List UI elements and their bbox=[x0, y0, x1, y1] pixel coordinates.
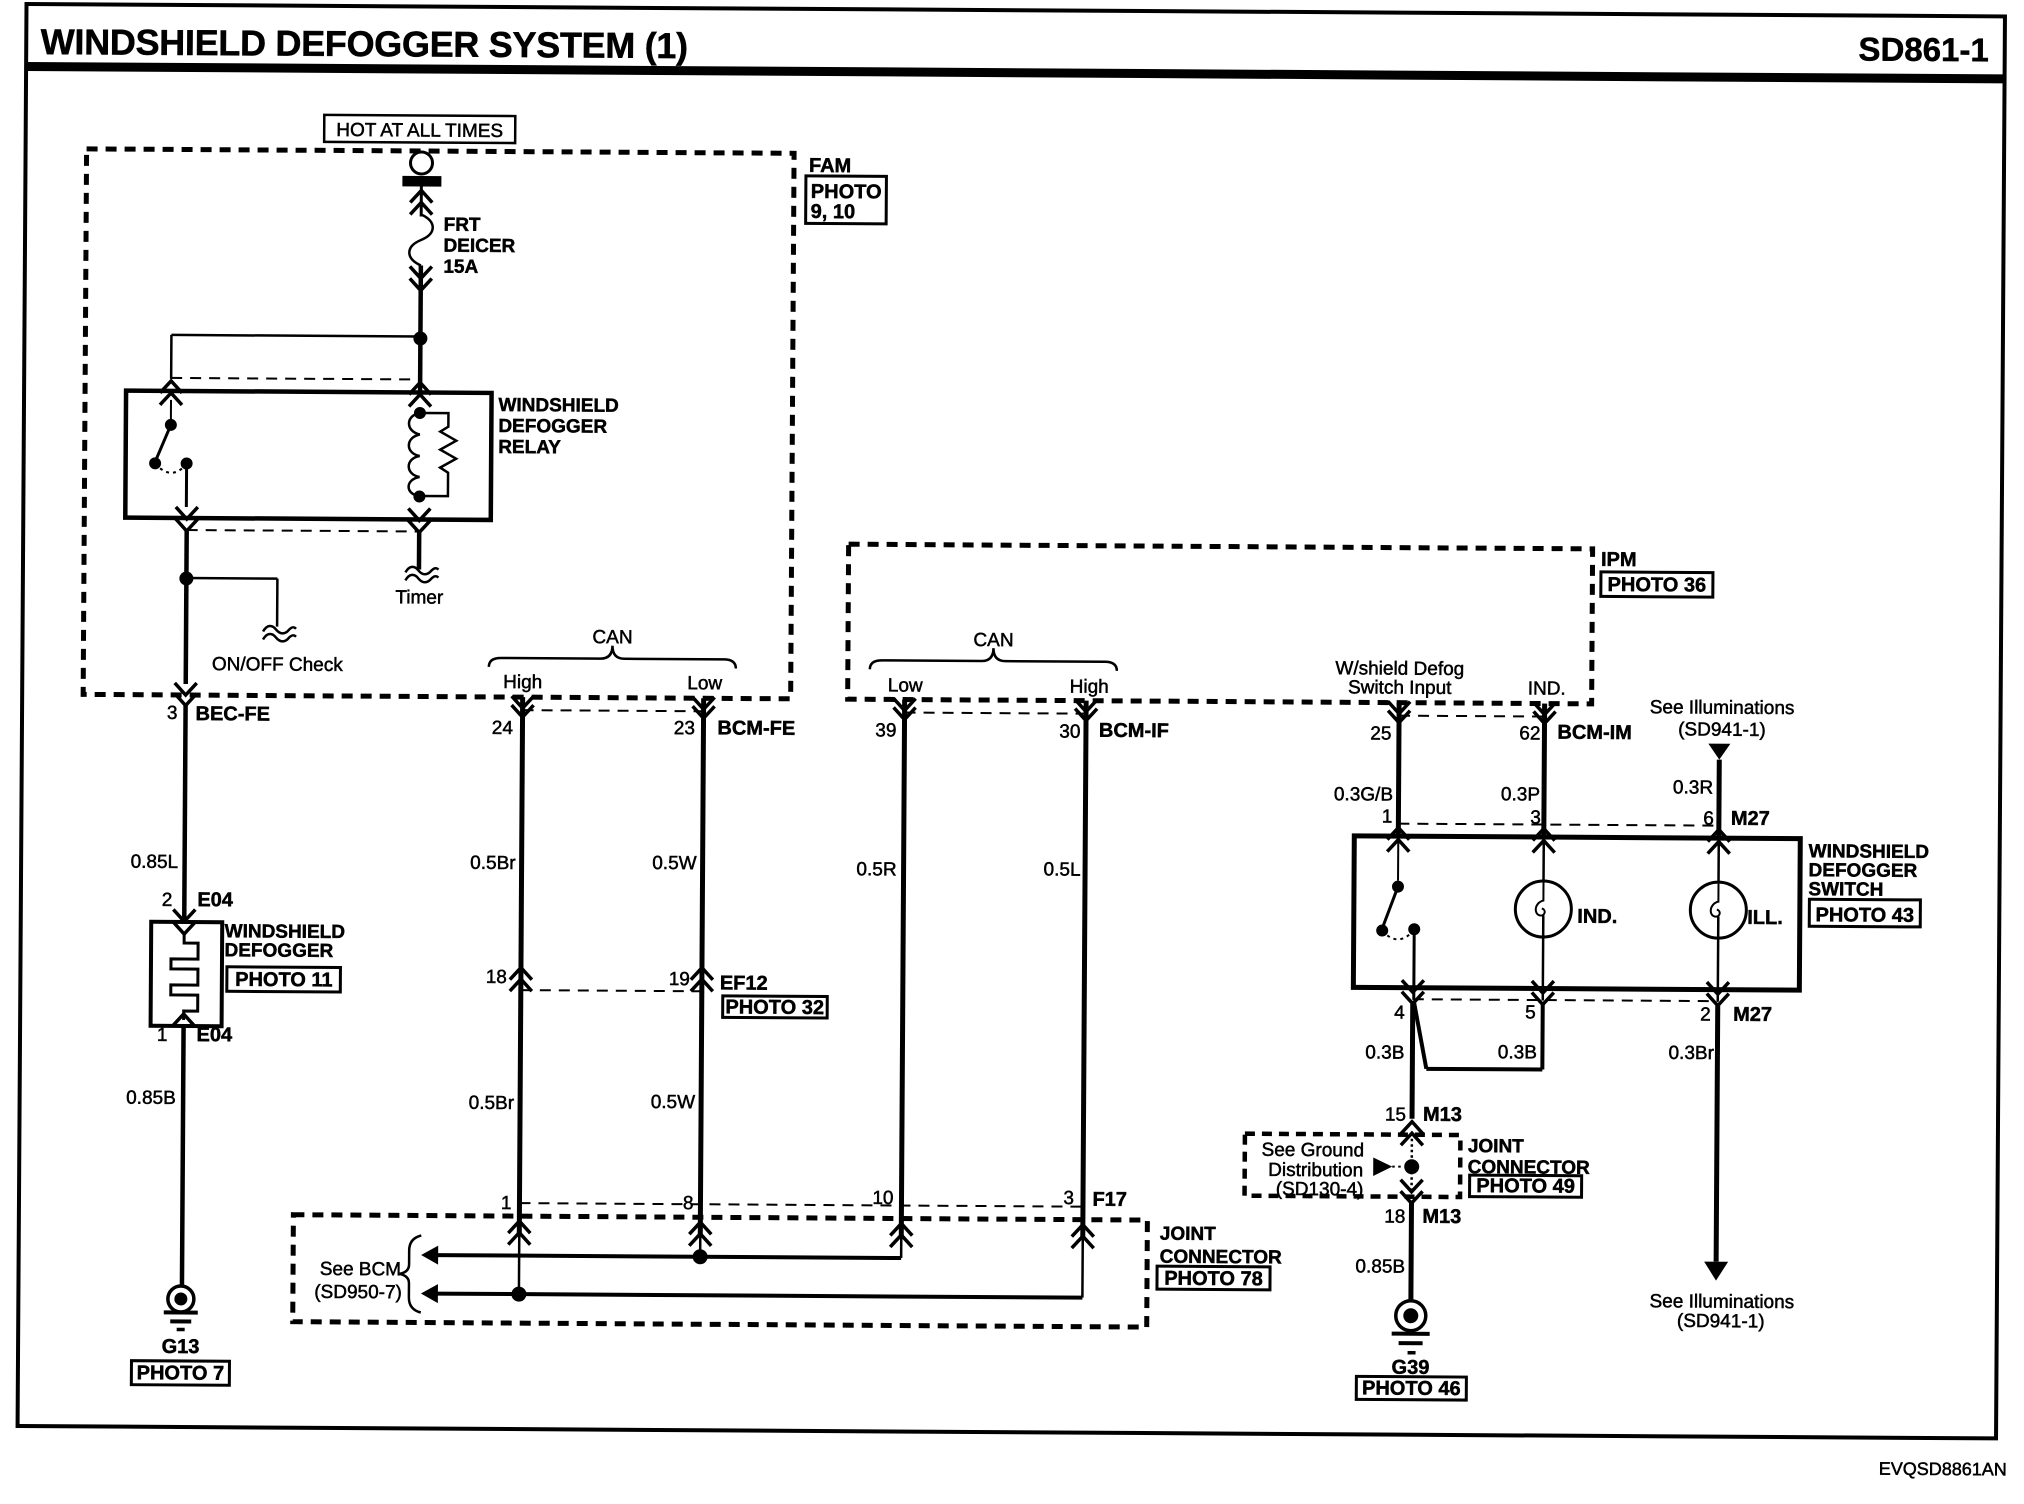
junction node on feed wire bbox=[413, 331, 427, 345]
svg-text:24: 24 bbox=[492, 718, 514, 739]
pin 1 chevrons (switch) bbox=[1387, 828, 1409, 852]
label See BCM SD950-7 with brace bbox=[314, 1235, 421, 1313]
joint connector box (dashed) bbox=[293, 1215, 1148, 1327]
pin numbers 1 3 6 and connector M27 bbox=[1382, 806, 1770, 830]
svg-text:BCM-IF: BCM-IF bbox=[1099, 720, 1169, 742]
See Illuminations SD941-1 output arrow bbox=[1649, 1261, 1794, 1332]
svg-text:JOINT: JOINT bbox=[1468, 1136, 1524, 1157]
svg-text:8: 8 bbox=[683, 1193, 694, 1214]
pin numbers 39 30 and connector BCM-IF bbox=[875, 718, 1169, 743]
svg-text:0.3P: 0.3P bbox=[1501, 784, 1540, 805]
svg-text:0.3G/B: 0.3G/B bbox=[1334, 784, 1393, 805]
svg-text:HOT AT ALL TIMES: HOT AT ALL TIMES bbox=[336, 120, 503, 142]
svg-text:FAM: FAM bbox=[809, 155, 851, 177]
ground distribution tap arrow and node bbox=[1373, 1157, 1419, 1176]
svg-text:EVQSD8861AN: EVQSD8861AN bbox=[1879, 1459, 2007, 1480]
svg-text:62: 62 bbox=[1519, 723, 1540, 744]
Timer coil-break symbol bbox=[395, 567, 444, 609]
pin number 3 and connector BEC-FE bbox=[167, 703, 270, 726]
svg-text:E04: E04 bbox=[196, 1024, 233, 1046]
svg-text:EF12: EF12 bbox=[720, 972, 768, 994]
svg-text:ON/OFF Check: ON/OFF Check bbox=[212, 654, 344, 676]
svg-text:CAN: CAN bbox=[592, 627, 632, 648]
JOINT CONNECTOR label with PHOTO 78 bbox=[1157, 1224, 1282, 1291]
svg-text:9, 10: 9, 10 bbox=[811, 201, 856, 223]
svg-text:CAN: CAN bbox=[973, 630, 1013, 651]
svg-text:5: 5 bbox=[1525, 1002, 1536, 1023]
connector EF12 pin 19 chevrons bbox=[691, 968, 713, 992]
svg-text:BCM-IM: BCM-IM bbox=[1557, 722, 1632, 744]
svg-text:Low: Low bbox=[687, 673, 722, 694]
svg-text:(SD130-4): (SD130-4) bbox=[1276, 1179, 1364, 1201]
pin 18 chevrons bbox=[1400, 1180, 1422, 1204]
svg-text:18: 18 bbox=[486, 967, 507, 988]
CAN bus brace (FAM) with High Low bbox=[489, 626, 736, 694]
dashed pin line below relay bbox=[187, 530, 419, 531]
pin 5 chevrons bbox=[1532, 981, 1554, 1005]
svg-text:0.85B: 0.85B bbox=[126, 1088, 176, 1109]
svg-text:1: 1 bbox=[1382, 807, 1393, 828]
wire relay switch output bbox=[183, 531, 188, 684]
pin 39 chevrons bbox=[894, 698, 916, 719]
pin 8 chevrons (joint) bbox=[689, 1222, 711, 1246]
relay output pin chevrons (coil side) bbox=[408, 508, 430, 532]
connector chevrons below fuse bbox=[410, 266, 432, 290]
svg-text:FRT: FRT bbox=[444, 215, 481, 236]
windshield defogger relay box bbox=[125, 391, 491, 520]
pin 3 BEC-FE connector chevrons bbox=[175, 683, 197, 706]
svg-text:6: 6 bbox=[1703, 809, 1714, 830]
svg-text:DEFOGGER: DEFOGGER bbox=[498, 416, 607, 438]
PHOTO 46 box bbox=[1356, 1376, 1466, 1400]
svg-text:PHOTO 46: PHOTO 46 bbox=[1362, 1377, 1461, 1400]
svg-text:PHOTO 43: PHOTO 43 bbox=[1815, 904, 1914, 927]
relay coil bbox=[409, 407, 426, 503]
wire 0.3Br from pin 2 bbox=[1667, 1005, 1718, 1261]
dashed connector line F17 bbox=[519, 1203, 1082, 1207]
pin numbers 25 62 and connector BCM-IM bbox=[1370, 720, 1632, 746]
FAM label with PHOTO 9, 10 bbox=[806, 155, 887, 224]
svg-text:25: 25 bbox=[1370, 723, 1391, 744]
svg-text:PHOTO 49: PHOTO 49 bbox=[1476, 1175, 1575, 1198]
pin numbers 1 8 10 3 and connector F17 bbox=[501, 1185, 1127, 1218]
svg-text:PHOTO 32: PHOTO 32 bbox=[725, 996, 824, 1019]
indicator lamp IND. bbox=[1515, 840, 1618, 1001]
pin 15 chevrons bbox=[1401, 1122, 1423, 1146]
svg-text:High: High bbox=[1070, 677, 1109, 698]
bus wire to BCM (lower) with arrow bbox=[421, 1284, 1083, 1307]
CAN bus brace (IPM) with Low High bbox=[870, 629, 1117, 698]
pin numbers 24 23 and connector BCM-FE bbox=[492, 716, 796, 741]
svg-text:19: 19 bbox=[669, 969, 690, 990]
svg-text:0.3B: 0.3B bbox=[1365, 1042, 1404, 1063]
pin 2 E04 connector bbox=[162, 889, 234, 934]
junction node on output wire bbox=[179, 571, 193, 585]
pin 4 chevrons bbox=[1402, 980, 1424, 1004]
pin 3 chevrons (joint) bbox=[1072, 1225, 1094, 1249]
svg-text:IND.: IND. bbox=[1528, 678, 1566, 699]
dashed connector line BCM-IM bbox=[1399, 715, 1544, 718]
JOINT CONNECTOR label with PHOTO 49 bbox=[1468, 1136, 1591, 1198]
svg-text:PHOTO 78: PHOTO 78 bbox=[1164, 1268, 1263, 1291]
svg-text:SD861-1: SD861-1 bbox=[1858, 31, 1988, 69]
svg-text:IPM: IPM bbox=[1601, 549, 1637, 571]
pin 10 chevrons (joint) bbox=[890, 1223, 912, 1247]
svg-text:ILL.: ILL. bbox=[1747, 907, 1783, 929]
svg-text:High: High bbox=[503, 672, 542, 693]
ground G39 bbox=[1391, 1301, 1429, 1379]
svg-text:M13: M13 bbox=[1422, 1206, 1461, 1228]
pin numbers 18 19 connector EF12 with PHOTO 32 bbox=[486, 967, 828, 1019]
svg-text:15: 15 bbox=[1385, 1105, 1406, 1126]
svg-text:23: 23 bbox=[674, 718, 695, 739]
svg-text:PHOTO 36: PHOTO 36 bbox=[1608, 574, 1707, 597]
bus bar bbox=[402, 176, 441, 187]
power feed ring terminal bbox=[410, 152, 432, 174]
FAM module box (dashed) bbox=[83, 149, 794, 699]
pin 1 E04 connector bbox=[157, 1014, 233, 1046]
pin 6 chevrons (switch) bbox=[1708, 830, 1730, 854]
svg-text:See Illuminations: See Illuminations bbox=[1650, 697, 1795, 719]
svg-text:15A: 15A bbox=[443, 257, 478, 278]
pin 24 chevrons bbox=[512, 696, 534, 717]
svg-text:0.5W: 0.5W bbox=[652, 853, 697, 874]
pin 3 chevrons (switch) bbox=[1533, 828, 1555, 852]
See Ground Distribution box (dashed) bbox=[1245, 1134, 1461, 1201]
svg-text:0.5Br: 0.5Br bbox=[470, 853, 516, 874]
pin 1 chevrons (joint) bbox=[508, 1221, 530, 1245]
svg-text:WINDSHIELD DEFOGGER SYSTEM (1): WINDSHIELD DEFOGGER SYSTEM (1) bbox=[41, 21, 688, 66]
relay switch contact bbox=[149, 400, 193, 507]
label W/shield Defog Switch Input bbox=[1335, 658, 1464, 699]
wire 0.85B bbox=[125, 1026, 184, 1286]
pin 30 chevrons bbox=[1075, 700, 1097, 721]
relay label bbox=[498, 395, 619, 459]
wire stubs into joint connector bbox=[519, 1234, 1083, 1298]
svg-text:0.3R: 0.3R bbox=[1673, 777, 1713, 798]
svg-text:39: 39 bbox=[875, 720, 896, 741]
wire CAN High 0.5Br bbox=[468, 697, 523, 1234]
windshield defogger heater element bbox=[151, 922, 223, 1026]
wire bus bar to fuse bbox=[420, 186, 423, 216]
svg-text:0.5R: 0.5R bbox=[856, 859, 896, 880]
svg-text:2: 2 bbox=[162, 890, 173, 911]
svg-text:PHOTO: PHOTO bbox=[811, 181, 882, 203]
pin 23 chevrons bbox=[693, 697, 715, 718]
svg-text:3: 3 bbox=[1530, 807, 1541, 828]
wire CAN Low 0.5R bbox=[854, 699, 905, 1236]
windshield defogger switch box bbox=[1353, 836, 1800, 990]
svg-text:0.5Br: 0.5Br bbox=[469, 1093, 515, 1114]
IPM module box (dashed) bbox=[848, 544, 1593, 704]
svg-text:PHOTO 7: PHOTO 7 bbox=[137, 1362, 225, 1385]
svg-text:(SD950-7): (SD950-7) bbox=[314, 1282, 402, 1304]
wire 0.3R bbox=[1673, 759, 1720, 838]
wire 0.3B from pin 5 merging into pin 4 wire bbox=[1413, 1001, 1542, 1070]
svg-text:Timer: Timer bbox=[395, 587, 444, 608]
svg-text:10: 10 bbox=[872, 1188, 893, 1209]
wire 0.85B to ground G39 bbox=[1355, 1203, 1411, 1302]
svg-text:Low: Low bbox=[888, 675, 923, 696]
svg-text:BCM-FE: BCM-FE bbox=[717, 717, 795, 739]
svg-text:DEFOGGER: DEFOGGER bbox=[224, 940, 333, 962]
svg-text:IND.: IND. bbox=[1577, 906, 1617, 928]
dashed connector line M27 bottom bbox=[1413, 999, 1718, 1001]
connector EF12 pin 18 chevrons bbox=[510, 968, 532, 992]
ON/OFF Check branch bbox=[186, 578, 344, 676]
svg-text:1: 1 bbox=[157, 1025, 168, 1046]
svg-text:3: 3 bbox=[167, 703, 178, 724]
svg-text:0.3B: 0.3B bbox=[1498, 1042, 1537, 1063]
fuse FRT DEICER 15A bbox=[409, 214, 516, 278]
illumination lamp ILL. bbox=[1690, 841, 1784, 1002]
svg-text:See BCM: See BCM bbox=[320, 1259, 401, 1281]
wire 0.3G/B bbox=[1334, 702, 1399, 836]
relay output pin chevrons (switch side) bbox=[176, 507, 198, 531]
svg-text:1: 1 bbox=[501, 1193, 512, 1214]
PHOTO 7 box bbox=[131, 1361, 229, 1386]
relay input pin chevrons (coil side) bbox=[409, 382, 431, 406]
svg-text:F17: F17 bbox=[1092, 1189, 1127, 1211]
svg-text:18: 18 bbox=[1384, 1207, 1405, 1228]
dashed connector line M27 top bbox=[1398, 824, 1718, 826]
pin 15 M13 label bbox=[1385, 1104, 1462, 1126]
svg-text:M27: M27 bbox=[1733, 1004, 1772, 1026]
wire branch to relay switch pin bbox=[171, 335, 420, 381]
dashed connector line BCM-FE bbox=[523, 710, 704, 711]
svg-text:See Ground: See Ground bbox=[1262, 1140, 1365, 1162]
wire relay coil to timer bbox=[417, 532, 422, 569]
IPM label with PHOTO 36 bbox=[1601, 549, 1713, 597]
svg-text:M27: M27 bbox=[1731, 808, 1770, 830]
svg-text:0.5L: 0.5L bbox=[1044, 859, 1081, 880]
relay input pin chevrons (switch side) bbox=[160, 381, 182, 405]
ground G13 bbox=[162, 1286, 200, 1358]
svg-text:4: 4 bbox=[1394, 1003, 1405, 1024]
dashed pin line above relay bbox=[171, 378, 420, 380]
svg-text:JOINT: JOINT bbox=[1160, 1224, 1216, 1245]
svg-text:BEC-FE: BEC-FE bbox=[195, 703, 270, 725]
See Illuminations SD941-1 feed bbox=[1649, 697, 1794, 760]
svg-text:0.85L: 0.85L bbox=[131, 852, 179, 873]
pin 2 chevrons bbox=[1707, 982, 1729, 1006]
svg-text:M13: M13 bbox=[1423, 1104, 1462, 1126]
connector chevrons below bus bar bbox=[410, 190, 432, 214]
wire 0.85L bbox=[130, 705, 185, 922]
windshield defogger label with PHOTO 11 bbox=[224, 921, 345, 992]
svg-text:0.85B: 0.85B bbox=[1355, 1256, 1405, 1277]
wire CAN High 0.5L bbox=[1041, 700, 1086, 1237]
wire CAN Low 0.5W bbox=[650, 698, 704, 1235]
wire fuse to relay coil pin bbox=[418, 265, 423, 392]
pin 62 chevrons bbox=[1534, 702, 1556, 723]
svg-text:30: 30 bbox=[1059, 722, 1080, 743]
svg-text:SWITCH: SWITCH bbox=[1808, 879, 1883, 900]
svg-text:E04: E04 bbox=[197, 889, 234, 911]
svg-text:DEICER: DEICER bbox=[443, 236, 515, 257]
svg-text:Switch Input: Switch Input bbox=[1348, 677, 1452, 699]
svg-text:(SD941-1): (SD941-1) bbox=[1678, 719, 1766, 741]
svg-text:G13: G13 bbox=[162, 1336, 200, 1358]
pin 18 M13 label bbox=[1384, 1206, 1461, 1228]
pin 25 chevrons bbox=[1388, 702, 1410, 723]
switch contact blade bbox=[1376, 839, 1421, 999]
svg-text:0.3Br: 0.3Br bbox=[1668, 1043, 1714, 1064]
label HOT AT ALL TIMES bbox=[324, 115, 515, 143]
dashed connector line BCM-IF bbox=[905, 713, 1086, 714]
svg-text:0.5W: 0.5W bbox=[651, 1092, 696, 1113]
wire 0.3P bbox=[1501, 703, 1545, 837]
dashed connector line EF12 bbox=[521, 990, 702, 991]
svg-text:RELAY: RELAY bbox=[498, 437, 561, 458]
bus wire to BCM (upper) with arrow bbox=[421, 1246, 901, 1268]
switch label with PHOTO 43 bbox=[1808, 841, 1929, 927]
pin numbers 4 5 2 and connector M27 bbox=[1394, 1002, 1772, 1026]
svg-text:See Illuminations: See Illuminations bbox=[1649, 1291, 1794, 1313]
svg-text:(SD941-1): (SD941-1) bbox=[1677, 1311, 1765, 1333]
svg-text:2: 2 bbox=[1700, 1005, 1711, 1026]
svg-text:3: 3 bbox=[1063, 1188, 1074, 1209]
wire 0.3B from pin 4 bbox=[1365, 1003, 1413, 1118]
relay resistor (parallel with coil) bbox=[419, 413, 456, 496]
wire through joint connector M13 bbox=[1410, 1133, 1413, 1188]
svg-text:PHOTO 11: PHOTO 11 bbox=[235, 969, 333, 992]
svg-text:WINDSHIELD: WINDSHIELD bbox=[498, 395, 618, 417]
